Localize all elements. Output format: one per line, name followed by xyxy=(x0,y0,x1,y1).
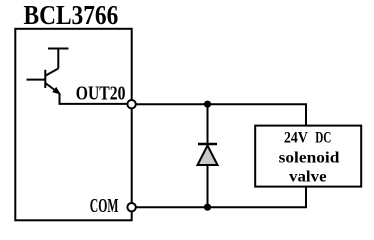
junction node top xyxy=(204,101,211,108)
diode D1 xyxy=(198,104,218,207)
wire OUT20 to solenoid valve xyxy=(136,104,307,126)
svg-text:valve: valve xyxy=(289,169,327,186)
svg-text:DC: DC xyxy=(315,129,331,146)
wire emitter to OUT20 terminal xyxy=(60,94,129,104)
junction node bottom xyxy=(204,204,211,211)
wire COM to solenoid valve xyxy=(136,186,307,207)
terminal OUT20 xyxy=(127,100,135,108)
load box solenoid valve xyxy=(255,126,361,187)
IC box BCL3766 xyxy=(15,29,131,221)
svg-text:24V: 24V xyxy=(284,129,308,146)
svg-text:BCL3766: BCL3766 xyxy=(24,0,119,30)
svg-text:COM: COM xyxy=(90,195,119,217)
svg-text:OUT20: OUT20 xyxy=(76,82,126,104)
transistor Q1 xyxy=(27,49,69,94)
svg-text:solenoid: solenoid xyxy=(279,150,340,167)
terminal COM xyxy=(127,203,135,211)
